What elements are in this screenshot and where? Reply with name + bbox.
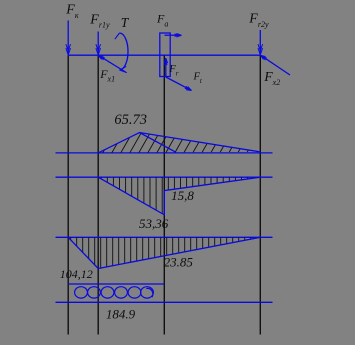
svg-text:65.73: 65.73 bbox=[114, 112, 147, 128]
force F_r2y arrow bbox=[258, 30, 263, 55]
vertical line 1 (coupling) bbox=[67, 55, 69, 334]
force F_x1 arrow bbox=[98, 55, 125, 72]
force F_x2 arrow bbox=[260, 55, 290, 75]
vertical line 4 (bearing 2) bbox=[259, 55, 261, 334]
My diagram envelope bbox=[98, 133, 260, 153]
Mx diagram envelope bbox=[98, 177, 260, 215]
My diagram hatching bbox=[92, 130, 269, 156]
svg-text:184.9: 184.9 bbox=[106, 306, 136, 321]
label F_k bbox=[65, 3, 79, 20]
torque diagram coil hatching bbox=[75, 287, 154, 298]
label T bbox=[121, 15, 130, 30]
Mx diagram axis bbox=[56, 176, 273, 178]
force F_t arrow bbox=[166, 77, 192, 91]
torque T arc with arrowhead bbox=[115, 33, 128, 73]
svg-text:15,8: 15,8 bbox=[171, 188, 194, 203]
svg-text:53,36: 53,36 bbox=[139, 216, 169, 231]
value 184.9 bbox=[106, 306, 136, 321]
label F_x1 bbox=[99, 67, 115, 84]
value 23.85 bbox=[164, 254, 194, 269]
resultant moment envelope bbox=[68, 237, 260, 268]
force F_r1y arrow bbox=[96, 32, 101, 55]
label F_t bbox=[193, 72, 203, 85]
value 65.73 bbox=[114, 112, 147, 128]
Mx diagram hatching bbox=[101, 177, 260, 216]
vertical line 2 (bearing 1) bbox=[97, 55, 99, 334]
My diagram axis bbox=[56, 152, 273, 154]
svg-text:23.85: 23.85 bbox=[164, 254, 194, 269]
vertical line 3 (gear) bbox=[163, 55, 165, 334]
label F_r bbox=[168, 64, 178, 77]
label F_x2 bbox=[263, 69, 280, 87]
label F_r2y bbox=[248, 12, 269, 29]
torque diagram top edge bbox=[68, 283, 164, 285]
torque diagram axis bbox=[56, 301, 273, 303]
gear outline rectangle bbox=[160, 33, 170, 77]
shaft beam axis bbox=[68, 54, 260, 56]
svg-text:104,12: 104,12 bbox=[60, 267, 93, 281]
force F_k arrow bbox=[66, 21, 71, 55]
label F_r1y bbox=[89, 12, 110, 29]
force F_a arrow bbox=[165, 33, 182, 37]
resultant moment hatching bbox=[71, 237, 257, 270]
value 15,8 bbox=[171, 188, 194, 203]
value 53,36 bbox=[139, 216, 169, 231]
force F_r arrow bbox=[164, 58, 168, 76]
label F_a bbox=[156, 12, 168, 29]
resultant moment diagram axis bbox=[56, 236, 273, 238]
value 104,12 bbox=[60, 267, 93, 281]
